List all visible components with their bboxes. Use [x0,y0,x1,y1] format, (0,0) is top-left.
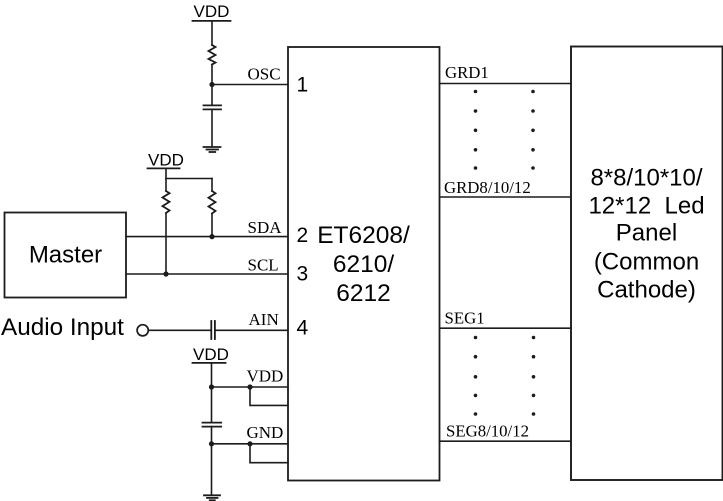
power VDD rail 3 (supply) [193,345,229,364]
svg-text:AIN: AIN [249,310,279,329]
node R2-SCL junction [163,271,168,276]
wire VDD2 to R2 [165,179,167,192]
wire OSC node to C1 [211,85,213,106]
svg-text:8*8/10*10/: 8*8/10*10/ [590,165,702,192]
wire GND net to IC [212,443,289,445]
op IC U1 ET6208/6210/6212 [288,47,440,481]
LED panel box [571,47,723,481]
wire SEG8/10/12 [440,440,572,442]
node VDD staple junction [247,384,252,389]
svg-text:OSC: OSC [248,65,281,84]
wire R2 to SCL [165,213,167,274]
capacitor C1 [204,105,222,109]
wire VDD3 to C3 [211,387,213,423]
wire VDD3 down [211,363,213,387]
power VDD rail 1 (top, OSC RC) [193,2,231,21]
wire VDD second pin staple [250,387,288,405]
svg-text:(Common: (Common [594,249,699,276]
capacitor C2 (AIN coupling) [211,321,215,339]
svg-text:SCL: SCL [248,256,279,275]
svg-text:12*12 Led: 12*12 Led [588,193,704,220]
wire OSC to pin 1 [212,84,288,86]
svg-text:3: 3 [296,263,308,286]
wire SDA [126,236,288,238]
wire C1 to ground [211,109,213,146]
svg-text:VDD: VDD [193,345,229,364]
svg-text:2: 2 [296,224,308,247]
resistor R1 [209,45,216,65]
resistor R2 [163,191,170,213]
Master box [5,213,127,298]
svg-text:SEG8/10/12: SEG8/10/12 [446,422,529,441]
svg-text:GRD8/10/12: GRD8/10/12 [444,178,531,197]
wire VDD net to IC [212,386,289,388]
svg-text:GRD1: GRD1 [445,63,489,82]
node VDD3 junction [209,384,214,389]
svg-text:VDD: VDD [194,2,230,21]
capacitor C3 (bypass) [203,423,222,427]
wire C3 to GND node [211,427,213,444]
node GND junction [209,441,214,446]
ground (OSC RC) [204,147,221,152]
power VDD rail 2 (pull-ups) [148,150,184,169]
svg-text:ET6208/: ET6208/ [317,222,410,249]
wire R3 to SDA [211,214,213,237]
node GND staple junction [247,441,252,446]
wire GRD1 [440,83,572,85]
GRD bus continuation dots [474,90,535,170]
wire SCL [126,273,288,275]
wire terminal to C2 [148,329,210,331]
svg-text:GND: GND [247,423,284,442]
SEG bus continuation dots [474,336,536,416]
node OSC junction [209,82,214,87]
svg-text:VDD: VDD [148,150,184,169]
resistor R3 [209,191,216,214]
wire VDD2 branch to R3 [166,178,212,180]
svg-text:SDA: SDA [248,218,283,237]
svg-text:VDD: VDD [247,367,284,386]
wire VDD1 to R1 [211,21,213,45]
wire R1 to OSC node [211,65,213,85]
svg-text:Panel: Panel [616,220,677,247]
audio input terminal [137,325,148,336]
svg-text:SEG1: SEG1 [445,309,485,328]
svg-text:1: 1 [296,74,308,97]
svg-text:Cathode): Cathode) [597,277,696,304]
svg-text:4: 4 [296,317,308,340]
wire AIN to pin 4 [215,329,288,331]
svg-text:Audio Input: Audio Input [1,314,124,341]
ground (supply) [204,495,220,500]
wire VDD2 down [165,169,167,179]
wire GRD8/10/12 [440,196,572,198]
wire GND second pin staple [250,444,288,463]
svg-text:Master: Master [29,242,102,269]
svg-text:6210/: 6210/ [333,251,395,278]
node R3-SDA junction [209,234,214,239]
wire branch to R3 top [211,179,213,192]
wire SEG1 [440,327,572,329]
wire GND node to ground [211,444,213,495]
svg-text:6212: 6212 [336,280,391,307]
